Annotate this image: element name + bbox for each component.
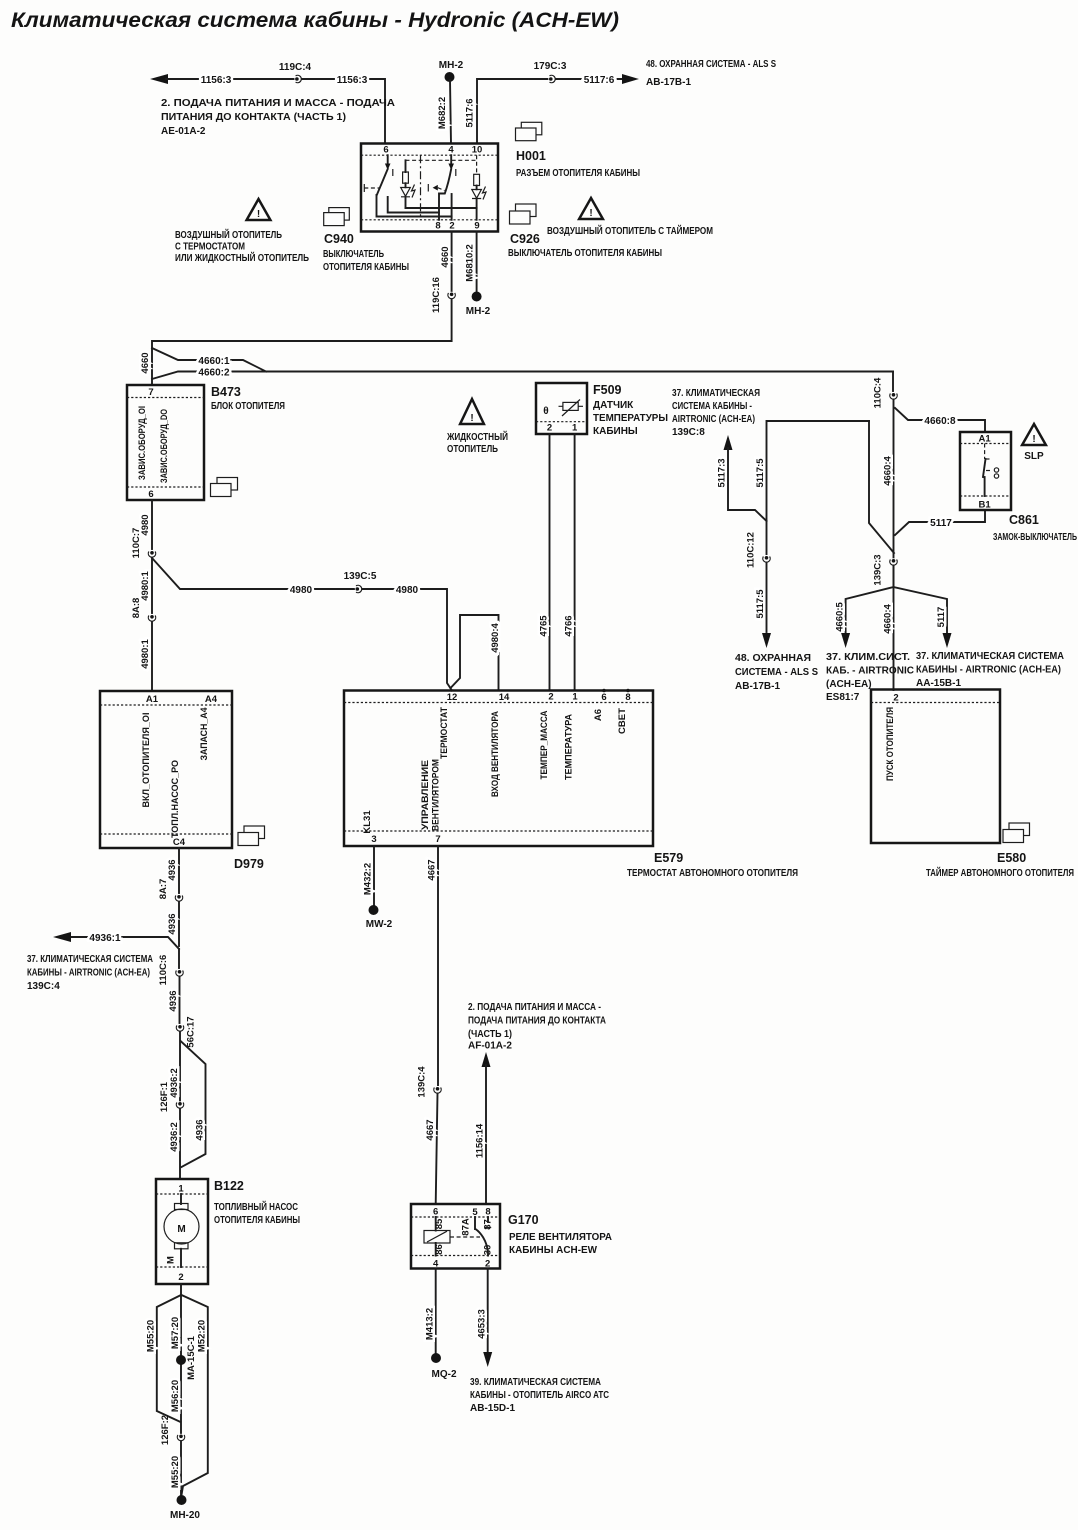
heater unit B473 <box>127 385 285 500</box>
heater thermostat E579 <box>344 689 798 879</box>
wire 5117:5 (down arrow to AB-17B-1) <box>755 563 771 649</box>
svg-text:MW-2: MW-2 <box>366 919 393 930</box>
svg-text:ЗАВИС.ОБОРУД_DO: ЗАВИС.ОБОРУД_DO <box>159 409 170 483</box>
svg-text:4660:2: 4660:2 <box>198 368 230 379</box>
text ref 48. ОХРАННАЯ СИСТЕМА (bottom) <box>735 653 818 692</box>
wire 4660:4 (main vertical) <box>883 400 894 588</box>
svg-text:ПИТАНИЯ ДО КОНТАКТА (ЧАСТЬ 1): ПИТАНИЯ ДО КОНТАКТА (ЧАСТЬ 1) <box>161 112 346 123</box>
svg-text:H001: H001 <box>516 149 546 163</box>
svg-text:6: 6 <box>601 692 606 703</box>
svg-text:139C:5: 139C:5 <box>344 571 377 582</box>
wire 4667 (E579 pin 7 down) <box>427 846 439 1085</box>
connector 110C:4 <box>873 377 898 408</box>
svg-text:!: ! <box>589 208 592 219</box>
switch contact S1 (pin 6) <box>364 155 451 216</box>
svg-text:119C:16: 119C:16 <box>431 277 442 313</box>
svg-text:8A:7: 8A:7 <box>158 879 169 900</box>
svg-text:D979: D979 <box>234 857 264 871</box>
svg-text:РЕЛЕ ВЕНТИЛЯТОРА: РЕЛЕ ВЕНТИЛЯТОРА <box>509 1232 612 1243</box>
svg-text:4936: 4936 <box>195 1119 206 1140</box>
svg-text:ВХОД ВЕНТИЛЯТОРА: ВХОД ВЕНТИЛЯТОРА <box>490 711 501 797</box>
text ref 48. ОХРАННАЯ СИСТЕМА (top right) <box>646 59 776 88</box>
svg-text:ВЕНТИЛЯТОРОМ: ВЕНТИЛЯТОРОМ <box>431 759 442 831</box>
svg-text:9: 9 <box>474 221 479 232</box>
svg-text:4660:8: 4660:8 <box>924 416 956 427</box>
svg-text:4936: 4936 <box>167 859 178 880</box>
svg-text:139C:8: 139C:8 <box>672 427 705 438</box>
svg-text:M6810:2: M6810:2 <box>465 244 476 282</box>
node MA-15C-1 junction <box>176 1335 197 1380</box>
connector icon B473 <box>211 478 238 497</box>
text ref 37. КЛИМАТИЧЕСКАЯ СИСТЕМА (left) <box>27 954 153 992</box>
svg-text:F509: F509 <box>593 383 622 397</box>
connector 179C:3 <box>534 61 567 83</box>
wire 4936:1 branch (left arrow) <box>53 932 179 949</box>
svg-text:M55:20: M55:20 <box>170 1456 181 1488</box>
relay contact G170 <box>475 1217 491 1256</box>
svg-text:РАЗЪЕМ ОТОПИТЕЛЯ КАБИНЫ: РАЗЪЕМ ОТОПИТЕЛЯ КАБИНЫ <box>516 168 640 179</box>
wire 4936 (D979 C4 down) <box>167 848 179 946</box>
svg-text:ВОЗДУШНЫЙ ОТОПИТЕЛЬ С ТАЙМЕРОМ: ВОЗДУШНЫЙ ОТОПИТЕЛЬ С ТАЙМЕРОМ <box>547 224 713 237</box>
svg-text:M52:20: M52:20 <box>197 1320 208 1352</box>
connector icon C926 <box>508 204 662 259</box>
svg-text:4765: 4765 <box>539 615 550 637</box>
svg-text:12: 12 <box>447 692 458 703</box>
svg-text:7: 7 <box>148 387 153 398</box>
text ref 37. КЛИМАТИЧЕСКАЯ СИСТЕМА (right) <box>916 651 1064 689</box>
svg-text:ИЛИ ЖИДКОСТНЫЙ ОТОПИТЕЛЬ: ИЛИ ЖИДКОСТНЫЙ ОТОПИТЕЛЬ <box>175 251 309 264</box>
svg-text:ES81:7: ES81:7 <box>826 692 860 703</box>
svg-text:110C:7: 110C:7 <box>131 528 142 559</box>
svg-text:!: ! <box>257 209 260 220</box>
svg-text:6: 6 <box>148 489 153 500</box>
connector 139C:3 <box>873 554 898 585</box>
connector 139C:5 <box>344 571 377 593</box>
svg-text:87A: 87A <box>461 1218 472 1236</box>
svg-text:θ: θ <box>543 406 548 417</box>
switch contact S2 (pin 4) <box>428 155 456 220</box>
svg-text:2. ПОДАЧА ПИТАНИЯ И МАССА - ПО: 2. ПОДАЧА ПИТАНИЯ И МАССА - ПОДАЧА <box>161 98 395 109</box>
svg-text:37. КЛИМАТИЧЕСКАЯ СИСТЕМА: 37. КЛИМАТИЧЕСКАЯ СИСТЕМА <box>916 651 1064 662</box>
svg-text:КАБИНЫ - AIRTRONIC (ACH-EA): КАБИНЫ - AIRTRONIC (ACH-EA) <box>27 968 150 979</box>
svg-text:СИСТЕМА - ALS S: СИСТЕМА - ALS S <box>735 667 818 678</box>
connector 110C:12 <box>746 532 771 568</box>
svg-text:C940: C940 <box>324 232 354 246</box>
warning triangle (air heater w/timer) <box>547 198 713 237</box>
svg-text:1: 1 <box>572 423 578 434</box>
svg-text:C926: C926 <box>510 232 540 246</box>
svg-text:37. КЛИМ.СИСТ.: 37. КЛИМ.СИСТ. <box>826 652 910 663</box>
svg-text:126F:2: 126F:2 <box>160 1415 171 1445</box>
svg-text:A4: A4 <box>205 694 218 705</box>
svg-text:ОТОПИТЕЛЯ КАБИНЫ: ОТОПИТЕЛЯ КАБИНЫ <box>323 262 409 273</box>
svg-text:110C:4: 110C:4 <box>873 377 884 408</box>
svg-text:1156:3: 1156:3 <box>201 75 232 86</box>
svg-text:4936: 4936 <box>168 990 179 1011</box>
text ref 39. КЛИМАТИЧЕСКАЯ СИСТЕМА <box>470 1377 609 1414</box>
wire M55:20 (left branch) <box>146 1284 182 1422</box>
svg-text:MH-20: MH-20 <box>170 1510 200 1521</box>
warning triangle (liquid heater) <box>446 399 508 455</box>
svg-text:4660:4: 4660:4 <box>883 603 894 633</box>
svg-text:2: 2 <box>893 693 898 704</box>
svg-text:4660: 4660 <box>140 352 151 373</box>
wire 4660 (pin 2 down to B473) <box>140 232 452 386</box>
svg-text:M: M <box>177 1224 185 1235</box>
wire 5117 (down arrow to AA-15B-1) <box>894 587 952 648</box>
svg-text:4660:5: 4660:5 <box>835 601 846 631</box>
svg-text:(ЧАСТЬ 1): (ЧАСТЬ 1) <box>468 1029 512 1040</box>
svg-text:4936: 4936 <box>167 913 178 934</box>
svg-text:4660:4: 4660:4 <box>883 455 894 485</box>
svg-text:2: 2 <box>449 221 454 232</box>
cabin temperature sensor F509 <box>536 383 668 437</box>
svg-text:8A:8: 8A:8 <box>131 598 142 619</box>
fuel pump B122 <box>156 1179 300 1284</box>
wire 4660:2 (long horizontal to right) <box>152 368 893 380</box>
svg-text:B1: B1 <box>979 500 992 511</box>
svg-text:!: ! <box>470 413 473 424</box>
wire 4980 (branch to 139C:5 and E579 pin 12) <box>152 558 452 691</box>
fuel pump control unit D979 <box>100 691 232 848</box>
wire 5117:3 (up arrow) <box>717 435 767 521</box>
svg-text:8: 8 <box>625 692 630 703</box>
svg-text:Климатическая система кабины -: Климатическая система кабины - Hydronic … <box>11 9 619 32</box>
connector 8A:8 <box>131 598 156 622</box>
svg-text:M413:2: M413:2 <box>425 1308 436 1340</box>
resistor + LED (pin 9 right lamp) <box>472 155 486 220</box>
svg-text:M55:20: M55:20 <box>146 1320 157 1352</box>
heater timer E580 <box>871 690 1074 880</box>
svg-text:2. ПОДАЧА ПИТАНИЯ И МАССА -: 2. ПОДАЧА ПИТАНИЯ И МАССА - <box>468 1002 601 1013</box>
svg-text:4980:1: 4980:1 <box>140 570 151 600</box>
relay coil G170 <box>424 1217 480 1256</box>
svg-text:A1: A1 <box>979 434 992 445</box>
wire 4980:4 (loop from pin 12 to pin 14) <box>451 615 502 691</box>
svg-text:!: ! <box>1032 434 1035 445</box>
node MQ-2 (G170 pin 4) <box>425 1269 457 1381</box>
connector 8A:7 <box>158 879 183 902</box>
svg-text:4980: 4980 <box>290 585 313 596</box>
svg-text:ВОЗДУШНЫЙ ОТОПИТЕЛЬ: ВОЗДУШНЫЙ ОТОПИТЕЛЬ <box>175 228 282 241</box>
fan relay G170 <box>411 1204 500 1270</box>
svg-text:1: 1 <box>572 692 578 703</box>
wire M57:20 / M56:20 / M55:20 (center) <box>170 1295 181 1500</box>
svg-text:ТЕРМОСТАТ: ТЕРМОСТАТ <box>439 707 450 759</box>
svg-text:БЛОК ОТОПИТЕЛЯ: БЛОК ОТОПИТЕЛЯ <box>211 401 285 412</box>
svg-text:5117:5: 5117:5 <box>755 458 766 488</box>
svg-text:ПУСК ОТОПИТЕЛЯ: ПУСК ОТОПИТЕЛЯ <box>885 707 896 781</box>
svg-text:179C:3: 179C:3 <box>534 61 567 72</box>
svg-text:10: 10 <box>472 145 483 156</box>
svg-text:G170: G170 <box>508 1213 539 1227</box>
connector 110C:6 <box>158 949 183 985</box>
svg-text:4660: 4660 <box>440 246 451 267</box>
svg-text:SLP: SLP <box>1024 451 1044 462</box>
wire 1156:14 (up arrow to AF-01A-2) <box>475 1052 491 1204</box>
text ref 2. ПОДАЧА ПИТАНИЯ (middle) <box>468 1002 606 1052</box>
text ref 37. КЛИМ.СИСТ. <box>826 652 914 703</box>
connector 139C:4 <box>417 1066 442 1098</box>
svg-text:126F:1: 126F:1 <box>159 1081 170 1112</box>
svg-text:4936:2: 4936:2 <box>169 1122 180 1152</box>
connector 126F:2 <box>160 1415 185 1445</box>
svg-text:ВКЛ_ОТОПИТЕЛЯ_OI: ВКЛ_ОТОПИТЕЛЯ_OI <box>141 713 152 808</box>
svg-text:AB-15D-1: AB-15D-1 <box>470 1403 515 1414</box>
svg-text:1156:3: 1156:3 <box>337 75 368 86</box>
svg-text:ТОПЛИВНЫЙ НАСОС: ТОПЛИВНЫЙ НАСОС <box>214 1200 298 1213</box>
warning triangle SLP <box>1022 424 1046 462</box>
svg-text:4: 4 <box>448 145 454 156</box>
svg-text:СИСТЕМА КАБИНЫ -: СИСТЕМА КАБИНЫ - <box>672 401 752 412</box>
svg-text:E579: E579 <box>654 851 683 865</box>
svg-text:M682:2: M682:2 <box>437 97 448 129</box>
svg-text:ТЕМПЕРАТУРА: ТЕМПЕРАТУРА <box>564 714 575 780</box>
warning triangle (air heater w/thermostat) <box>175 199 309 264</box>
wire pair split 4936:2 / 4936 <box>169 1032 206 1180</box>
svg-text:AB-17B-1: AB-17B-1 <box>646 77 691 88</box>
svg-text:2: 2 <box>178 1272 183 1283</box>
wire 4660:2 corner down (right main vertical) <box>892 372 894 392</box>
svg-text:M432:2: M432:2 <box>363 863 374 895</box>
svg-text:3: 3 <box>371 834 376 845</box>
svg-text:48. ОХРАННАЯ: 48. ОХРАННАЯ <box>735 653 811 664</box>
connector 119C:16 <box>431 277 455 313</box>
svg-text:СВЕТ: СВЕТ <box>617 708 628 734</box>
ignition switch C861 <box>960 432 1077 543</box>
svg-text:5117:6: 5117:6 <box>465 98 476 127</box>
svg-text:119C:4: 119C:4 <box>279 62 312 73</box>
connector icon H001 <box>516 122 641 179</box>
wire 4660:5 (down arrow to ES81:7) <box>835 566 894 649</box>
svg-text:4936:1: 4936:1 <box>89 933 121 944</box>
svg-text:MH-2: MH-2 <box>466 306 491 317</box>
connector icon D979 <box>234 826 265 871</box>
svg-text:B473: B473 <box>211 385 241 399</box>
svg-text:КАБИНЫ - AIRTRONIC (ACH-EA): КАБИНЫ - AIRTRONIC (ACH-EA) <box>916 665 1061 676</box>
svg-text:ЗАВИС.ОБОРУД_OI: ЗАВИС.ОБОРУД_OI <box>137 406 148 480</box>
svg-text:ЗАПАСН_А4: ЗАПАСН_А4 <box>199 707 210 761</box>
wire 4765 (F509 pin 2 to E579 pin 2) <box>539 434 550 691</box>
svg-text:AIRTRONIC (ACH-EA): AIRTRONIC (ACH-EA) <box>672 414 755 425</box>
svg-text:139C:4: 139C:4 <box>417 1066 428 1098</box>
text ref 2. ПОДАЧА ПИТАНИЯ (left) <box>161 98 395 137</box>
wire 4766 (F509 pin 1 to E579 pin 1) <box>564 434 575 691</box>
svg-text:ТЕМПЕР_МАССА: ТЕМПЕР_МАССА <box>539 710 550 779</box>
svg-text:5117: 5117 <box>936 607 947 628</box>
wire 4660:4 (to E580 pin 2) <box>883 587 894 690</box>
node MW-2 (E579 pin 3) <box>363 846 393 930</box>
svg-text:4936:2: 4936:2 <box>169 1068 180 1098</box>
svg-text:8: 8 <box>435 221 440 232</box>
svg-text:5117:5: 5117:5 <box>755 589 766 619</box>
svg-text:M56:20: M56:20 <box>170 1380 181 1412</box>
svg-text:ПОДАЧА ПИТАНИЯ ДО КОНТАКТА: ПОДАЧА ПИТАНИЯ ДО КОНТАКТА <box>468 1016 606 1027</box>
node MH-2 (top) <box>437 60 464 144</box>
svg-text:(ACH-EA): (ACH-EA) <box>826 679 872 690</box>
svg-text:ТОПЛ.НАСОС_РО: ТОПЛ.НАСОС_РО <box>170 760 181 838</box>
wire 4660:8 (to C861 A1) <box>895 408 985 432</box>
svg-text:КАБИНЫ - ОТОПИТЕЛЬ AIRCO ATC: КАБИНЫ - ОТОПИТЕЛЬ AIRCO ATC <box>470 1390 609 1401</box>
label G170 <box>508 1213 612 1256</box>
svg-text:ЖИДКОСТНЫЙ: ЖИДКОСТНЫЙ <box>446 430 508 443</box>
svg-text:KL31: KL31 <box>362 810 373 834</box>
svg-text:4653:3: 4653:3 <box>477 1309 488 1339</box>
wire 4667 (to G170 pin 6) <box>425 1094 438 1205</box>
svg-text:48. ОХРАННАЯ СИСТЕМА - ALS S: 48. ОХРАННАЯ СИСТЕМА - ALS S <box>646 59 776 70</box>
svg-text:ОТОПИТЕЛЬ: ОТОПИТЕЛЬ <box>447 444 498 455</box>
wire 1156:3 to AE-01A-2 (left arrow) <box>150 74 385 144</box>
text ref 37. КЛИМАТИЧЕСКАЯ (middle) <box>672 388 760 438</box>
svg-text:2: 2 <box>548 692 553 703</box>
connector icon C940 <box>323 208 409 273</box>
wire 4653:3 (down arrow to AB-15D-1) <box>477 1269 493 1368</box>
wire M52:20 (right branch) <box>182 1295 208 1495</box>
svg-text:37. КЛИМАТИЧЕСКАЯ: 37. КЛИМАТИЧЕСКАЯ <box>672 388 760 399</box>
svg-text:56C:17: 56C:17 <box>186 1016 197 1047</box>
svg-text:ВЫКЛЮЧАТЕЛЬ: ВЫКЛЮЧАТЕЛЬ <box>323 249 384 260</box>
connector 119C:4 <box>279 62 312 83</box>
svg-text:110C:12: 110C:12 <box>746 532 757 568</box>
svg-text:КАБИНЫ: КАБИНЫ <box>593 426 638 437</box>
svg-text:AF-01A-2: AF-01A-2 <box>468 1041 512 1052</box>
resistor + LED (pin 9 left lamp) <box>401 160 477 208</box>
svg-text:AE-01A-2: AE-01A-2 <box>161 126 206 137</box>
svg-text:КАБ. - AIRTRONIC: КАБ. - AIRTRONIC <box>826 666 914 677</box>
svg-text:MQ-2: MQ-2 <box>432 1369 457 1380</box>
svg-text:М: М <box>166 1256 177 1264</box>
svg-text:1: 1 <box>178 1184 184 1195</box>
wire 5117 (C861 B1 return) <box>895 510 985 535</box>
svg-text:4667: 4667 <box>425 1119 436 1140</box>
svg-text:MH-2: MH-2 <box>439 60 464 71</box>
svg-text:4667: 4667 <box>427 859 438 880</box>
wire 5117:6 to AB-17B-1 (right arrow) <box>465 74 640 144</box>
svg-text:B122: B122 <box>214 1179 244 1193</box>
connector icon E580 <box>1003 823 1030 843</box>
svg-text:7: 7 <box>435 834 440 845</box>
svg-text:E580: E580 <box>997 851 1026 865</box>
svg-text:MA-15C-1: MA-15C-1 <box>186 1335 197 1380</box>
svg-text:AB-17B-1: AB-17B-1 <box>735 681 780 692</box>
svg-text:C861: C861 <box>1009 513 1039 527</box>
svg-text:2: 2 <box>547 423 552 434</box>
svg-text:M57:20: M57:20 <box>170 1317 181 1349</box>
svg-text:37. КЛИМАТИЧЕСКАЯ СИСТЕМА: 37. КЛИМАТИЧЕСКАЯ СИСТЕМА <box>27 954 153 965</box>
svg-text:ОТОПИТЕЛЯ КАБИНЫ: ОТОПИТЕЛЯ КАБИНЫ <box>214 1215 300 1226</box>
svg-text:110C:6: 110C:6 <box>158 955 169 986</box>
connector 56C:17 <box>176 1016 196 1047</box>
svg-text:4766: 4766 <box>564 615 575 636</box>
svg-text:8: 8 <box>485 1207 490 1218</box>
connector 126F:1 <box>159 1081 184 1112</box>
wire 4936 (to 56C:17) <box>168 977 180 1024</box>
svg-text:A1: A1 <box>146 694 159 705</box>
svg-text:5117: 5117 <box>930 518 952 529</box>
heater switch block (H001/C940/C926) <box>361 144 498 232</box>
svg-text:ВЫКЛЮЧАТЕЛЬ ОТОПИТЕЛЯ КАБИНЫ: ВЫКЛЮЧАТЕЛЬ ОТОПИТЕЛЯ КАБИНЫ <box>508 248 662 259</box>
svg-text:39. КЛИМАТИЧЕСКАЯ СИСТЕМА: 39. КЛИМАТИЧЕСКАЯ СИСТЕМА <box>470 1377 601 1388</box>
svg-text:ТАЙМЕР АВТОНОМНОГО ОТОПИТЕЛЯ: ТАЙМЕР АВТОНОМНОГО ОТОПИТЕЛЯ <box>926 866 1074 879</box>
node MH-20 <box>170 1495 200 1521</box>
svg-text:6: 6 <box>383 145 388 156</box>
connector 110C:7 <box>131 528 156 559</box>
wire 4660:1 branch <box>152 348 266 372</box>
svg-text:1156:14: 1156:14 <box>475 1123 486 1158</box>
svg-text:4980:1: 4980:1 <box>140 638 151 668</box>
svg-text:AA-15B-1: AA-15B-1 <box>916 678 961 689</box>
wire 4980 (B473 pin 6 down) <box>140 500 152 549</box>
svg-text:ТЕМПЕРАТУРЫ: ТЕМПЕРАТУРЫ <box>593 413 668 424</box>
svg-text:139C:4: 139C:4 <box>27 981 60 992</box>
svg-text:ЗАМОК-ВЫКЛЮЧАТЕЛЬ: ЗАМОК-ВЫКЛЮЧАТЕЛЬ <box>993 532 1077 543</box>
svg-text:139C:3: 139C:3 <box>873 554 884 585</box>
node MH-2 (below pin 9) <box>465 232 491 318</box>
svg-text:КАБИНЫ ACH-EW: КАБИНЫ ACH-EW <box>509 1245 598 1256</box>
svg-text:5117:3: 5117:3 <box>717 458 728 487</box>
svg-text:ДАТЧИК: ДАТЧИК <box>593 400 634 411</box>
svg-text:6: 6 <box>433 1207 438 1218</box>
svg-text:УПРАВЛЕНИЕ: УПРАВЛЕНИЕ <box>420 760 431 830</box>
svg-text:С ТЕРМОСТАТОМ: С ТЕРМОСТАТОМ <box>175 242 245 253</box>
svg-text:А6: А6 <box>593 709 604 721</box>
svg-text:5117:6: 5117:6 <box>584 75 615 86</box>
svg-text:4980:4: 4980:4 <box>490 622 501 652</box>
wire 4980:1 (to D979 A1) <box>140 558 152 692</box>
wire 5117:5 (vertical + corner from horizontal) <box>755 421 894 554</box>
svg-text:4980: 4980 <box>396 585 419 596</box>
svg-text:14: 14 <box>499 692 510 703</box>
svg-text:4660:1: 4660:1 <box>198 356 230 367</box>
svg-text:ТЕРМОСТАТ АВТОНОМНОГО ОТОПИТЕЛ: ТЕРМОСТАТ АВТОНОМНОГО ОТОПИТЕЛЯ <box>627 868 798 879</box>
